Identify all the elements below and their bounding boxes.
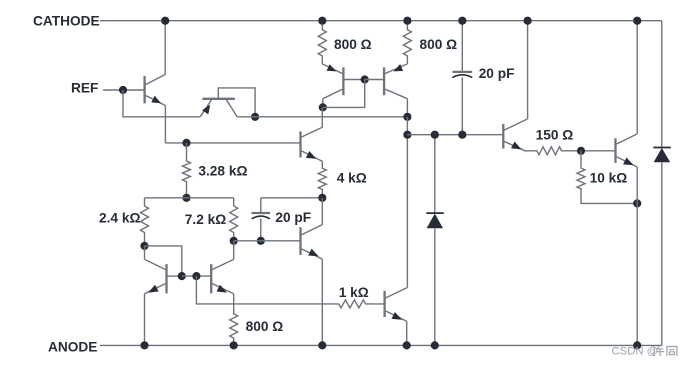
node C2 bottom junction — [257, 237, 265, 245]
wire Q4 base lead — [365, 79, 384, 81]
wire divider top rail — [145, 197, 234, 199]
diode D2 — [661, 21, 663, 148]
wire comp net line — [407, 134, 503, 136]
svg-text:3.28 kΩ: 3.28 kΩ — [198, 164, 247, 179]
wire Q5 collector up to Q3 collector — [321, 107, 323, 127]
transistor Q2 (lateral PNP, diode-connected) — [202, 98, 235, 100]
node anode junction at D1 — [431, 341, 439, 349]
transistor Q9 (output driver NPN) — [383, 291, 385, 317]
wire comp node down — [406, 117, 408, 135]
wire Q6 base line — [234, 240, 301, 242]
wire Q7 base lead — [167, 275, 182, 277]
resistor R10 10 kohm — [577, 151, 637, 204]
wire Q10 collector to cathode — [527, 21, 529, 119]
capacitor C2 20 pF (compensation) — [260, 198, 262, 213]
wire Q9 emitter to anode — [406, 321, 408, 345]
node R5 bottom junction — [140, 242, 148, 250]
transistor Q7 (sink mirror left) — [165, 264, 167, 293]
wire C2 top segment to R4 bottom — [261, 197, 323, 199]
node R10 bottom junction — [633, 199, 641, 207]
wire mirror tap down to R8 — [196, 276, 338, 304]
transistor Q5 (first stage NPN) — [299, 131, 301, 157]
transistor Q8 (sink mirror right) — [210, 264, 212, 293]
resistor R5 2.4 kohm — [141, 198, 149, 246]
capacitor C1 20 pF — [461, 21, 463, 72]
node anode junction at R7 — [230, 341, 238, 349]
node cathode junction at R1 — [318, 17, 326, 25]
resistor R9 150 ohm — [526, 147, 614, 155]
node cathode junction at Q11 — [633, 17, 641, 25]
svg-text:800 Ω: 800 Ω — [334, 37, 372, 52]
wire mirror base to diode tie — [323, 80, 365, 108]
wire Q5 base line — [165, 142, 300, 144]
node anode junction at Q11 — [633, 341, 641, 349]
node R9 / R10 junction — [577, 147, 585, 155]
wire Q4 collector down to input net — [406, 99, 408, 117]
svg-text:800 Ω: 800 Ω — [420, 37, 458, 52]
svg-text:10 kΩ: 10 kΩ — [590, 171, 628, 186]
diode D1 — [434, 135, 436, 213]
transistor Q10 (darlington first NPN) — [502, 124, 504, 149]
node REF junction — [119, 86, 127, 94]
svg-text:REF: REF — [71, 80, 98, 95]
resistor R3 3.28 kohm — [183, 143, 191, 198]
wire Q9 collector up to comp node — [406, 135, 408, 288]
node cathode junction at C1 — [458, 17, 466, 25]
wire Q3 base lead — [343, 79, 364, 81]
node mirror base tap junction — [192, 272, 200, 280]
resistor R4 4 kohm (Q5 emitter) — [318, 161, 326, 198]
wire Q7 collector up — [144, 246, 146, 260]
cathode rail wire — [100, 20, 662, 22]
transistor Q6 (second stage NPN) — [299, 227, 301, 255]
resistor R7 800 ohm (Q8 emitter) — [230, 294, 238, 346]
svg-text:1 kΩ: 1 kΩ — [339, 285, 369, 300]
svg-text:150 Ω: 150 Ω — [536, 127, 574, 142]
node R6 bottom junction — [230, 237, 238, 245]
wire Q7 emitter to anode — [144, 294, 146, 346]
wire Q2 collector net to mirror input — [237, 116, 407, 118]
node divider top junction — [182, 194, 190, 202]
svg-text:7.2 kΩ: 7.2 kΩ — [185, 212, 226, 227]
node D1 top junction — [431, 131, 439, 139]
wire Q6 emitter to anode — [321, 259, 323, 345]
wire Q11 collector to cathode — [636, 21, 638, 134]
resistor R6 7.2 kohm — [230, 198, 238, 241]
wire Q11 emitter to anode — [636, 167, 638, 345]
wire Q1 emitter down — [164, 106, 166, 143]
node C1 bottom junction — [458, 131, 466, 139]
svg-text:ANODE: ANODE — [48, 339, 97, 354]
node anode junction at Q6 emitter — [318, 341, 326, 349]
wire R5 bottom to mirror — [145, 246, 182, 276]
transistor Q3 (PNP mirror left) — [342, 67, 344, 95]
svg-text:CSDN @: CSDN @ — [612, 346, 659, 358]
wire REF down to input net — [123, 90, 200, 117]
wire mirror base line — [182, 275, 211, 277]
REF lead wire — [103, 89, 144, 91]
svg-text:800 Ω: 800 Ω — [246, 319, 284, 334]
svg-text:2.4 kΩ: 2.4 kΩ — [99, 211, 140, 226]
node Q4 collector junction — [403, 113, 411, 121]
node cathode junction at Q1 — [161, 17, 169, 25]
wire Q6 collector up to R4 bottom — [321, 198, 323, 225]
node Q5 base / R3 junction — [182, 139, 190, 147]
svg-text:20 pF: 20 pF — [479, 66, 515, 81]
node Q3 collector junction — [319, 103, 327, 111]
node Q2 base-collector tie — [251, 113, 259, 121]
node mirror base junction — [361, 75, 369, 83]
svg-text:CATHODE: CATHODE — [33, 14, 100, 29]
anode rail wire — [100, 344, 662, 346]
watermark glyph tong — [667, 347, 677, 357]
svg-text:4 kΩ: 4 kΩ — [337, 171, 367, 186]
transistor Q11 (output NPN) — [614, 138, 616, 163]
resistor R2 800 ohm (right mirror emitter) — [403, 21, 411, 64]
resistor R1 800 ohm (left mirror emitter) — [318, 21, 326, 64]
wire Q8 collector up to R6 bottom — [233, 241, 235, 260]
watermark glyph xu — [652, 346, 664, 356]
transistor Q4 (PNP mirror right) — [383, 67, 385, 95]
node Q7 base junction — [178, 272, 186, 280]
node comp net junction — [403, 131, 411, 139]
svg-text:20 pF: 20 pF — [275, 210, 311, 225]
node R4 bottom junction — [318, 194, 326, 202]
node anode junction at Q7 — [140, 341, 148, 349]
node cathode junction at R2 — [403, 17, 411, 25]
transistor Q1 (REF input NPN) — [143, 76, 145, 103]
wire Q3 collector down — [322, 99, 324, 108]
resistor R8 1 kohm — [339, 300, 384, 308]
wire Q2 base loop to collector node — [218, 88, 255, 117]
node cathode junction at Q10 — [524, 17, 532, 25]
node anode junction at Q9 — [403, 341, 411, 349]
wire Q1 collector to cathode — [164, 21, 166, 75]
